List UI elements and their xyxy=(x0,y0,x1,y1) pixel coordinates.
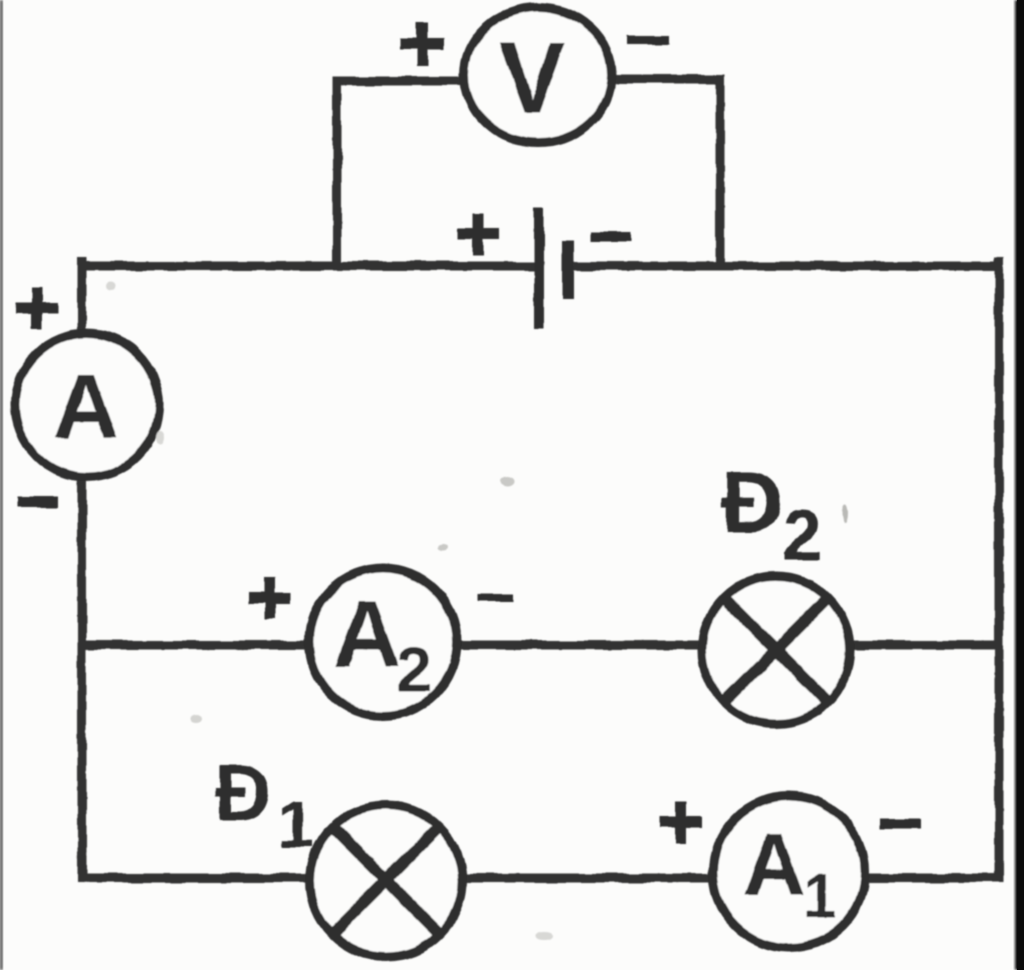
svg-text:Đ: Đ xyxy=(214,748,272,837)
svg-text:1: 1 xyxy=(278,787,315,861)
svg-text:A: A xyxy=(53,356,119,458)
svg-text:Đ: Đ xyxy=(721,455,783,551)
svg-text:2: 2 xyxy=(782,496,822,576)
svg-text:2: 2 xyxy=(396,634,432,706)
svg-text:1: 1 xyxy=(803,862,837,931)
svg-text:V: V xyxy=(499,22,566,134)
svg-text:A: A xyxy=(333,581,401,686)
svg-text:A: A xyxy=(742,815,806,914)
